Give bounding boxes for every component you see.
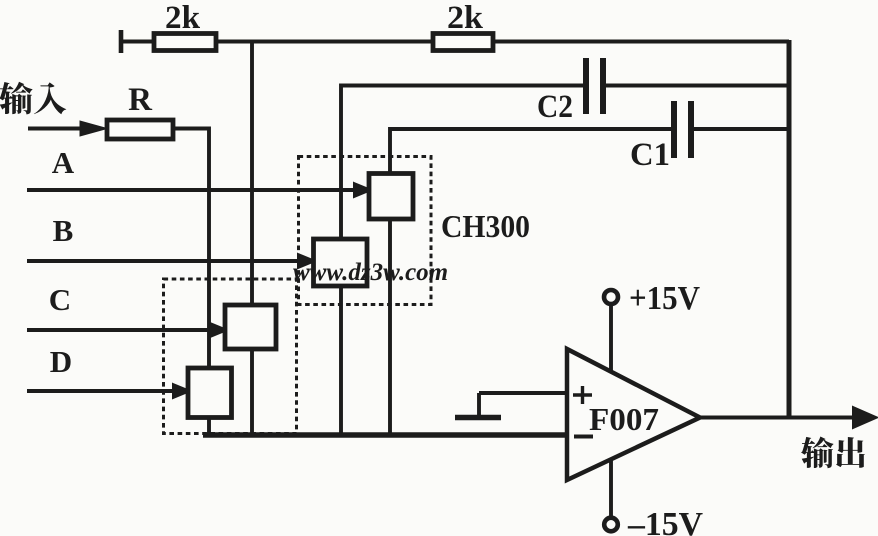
wire non-inverting input from ground [479,391,567,395]
ground [477,393,481,416]
svg-text:C2: C2 [537,89,573,125]
wire line B [27,259,301,263]
wire top feedback bus from terminal through both 2k resistors to right rail [121,40,789,44]
resistor R2 2k (right) [433,34,493,51]
wire C1 link from left plate down through switch S1 to summing bus [390,129,671,435]
op-amp U1 F007 [567,349,700,480]
svg-text:2k: 2k [165,0,201,36]
node arrowhead into switch S4 [173,384,190,398]
wire summing bus into op-amp inverting input [203,432,567,438]
svg-text:C1: C1 [630,137,670,173]
wire vertical from 2k junction down through switch S3 to summing bus [250,42,254,436]
svg-text:R: R [128,82,153,118]
svg-text:CH300: CH300 [441,208,530,244]
wire input line through R turning down through switch S4 to summing bus [173,129,209,436]
switch S3 (line C) [225,305,276,349]
wire line A [27,188,358,192]
wire C2 right plate to right rail [606,84,789,88]
node arrowhead into switch S2 [298,254,315,268]
node arrowhead into switch S1 [354,183,371,197]
module dashed enclosure (switches S3,S4) [164,279,297,434]
wire output from op-amp to arrow [700,416,858,420]
svg-text:–15V: –15V [627,506,703,536]
pin + (non-inverting) [573,386,592,404]
svg-text:www.dz3w.com: www.dz3w.com [293,259,448,286]
svg-text:C: C [49,282,71,317]
wire C1 right plate to right rail [694,127,789,131]
svg-text:F007: F007 [589,401,659,437]
svg-text:A: A [52,145,75,180]
svg-text:+15V: +15V [629,280,700,317]
node output arrowhead [853,407,877,428]
switch S4 (line D) [188,368,232,418]
module CH300 dashed enclosure (switches S1,S2) [299,157,432,305]
terminal -15V [604,518,618,532]
capacitor C2 [583,58,589,114]
node terminal stub (left end of feedback bus) [119,30,124,53]
switch S2 (CH300 channel, line B) [314,239,368,286]
wire -15V to op-amp bottom edge [609,458,613,517]
node arrowhead into switch S3 [210,323,227,337]
wire C2 link from left plate down through switch S2 to summing bus [341,86,583,436]
terminal +15V [604,290,618,304]
wire line C [27,328,212,332]
wire right vertical rail (feedback to output node) [787,40,792,418]
node label 输出 (output) [801,437,865,469]
switch S1 (CH300 channel, line A) [369,174,413,220]
pin - (inverting) [574,435,593,439]
wire line D [27,389,176,393]
svg-text:D: D [50,344,72,379]
capacitor C1 [671,101,677,158]
node input arrowhead [80,121,107,136]
wire input segment before R [28,127,86,131]
resistor R (input) [107,120,173,139]
node label 输入 (input) [0,82,66,115]
svg-text:B: B [53,213,74,248]
wire +15V to op-amp top edge [609,304,613,372]
resistor R1 2k (left) [154,34,216,51]
svg-text:2k: 2k [447,0,484,36]
